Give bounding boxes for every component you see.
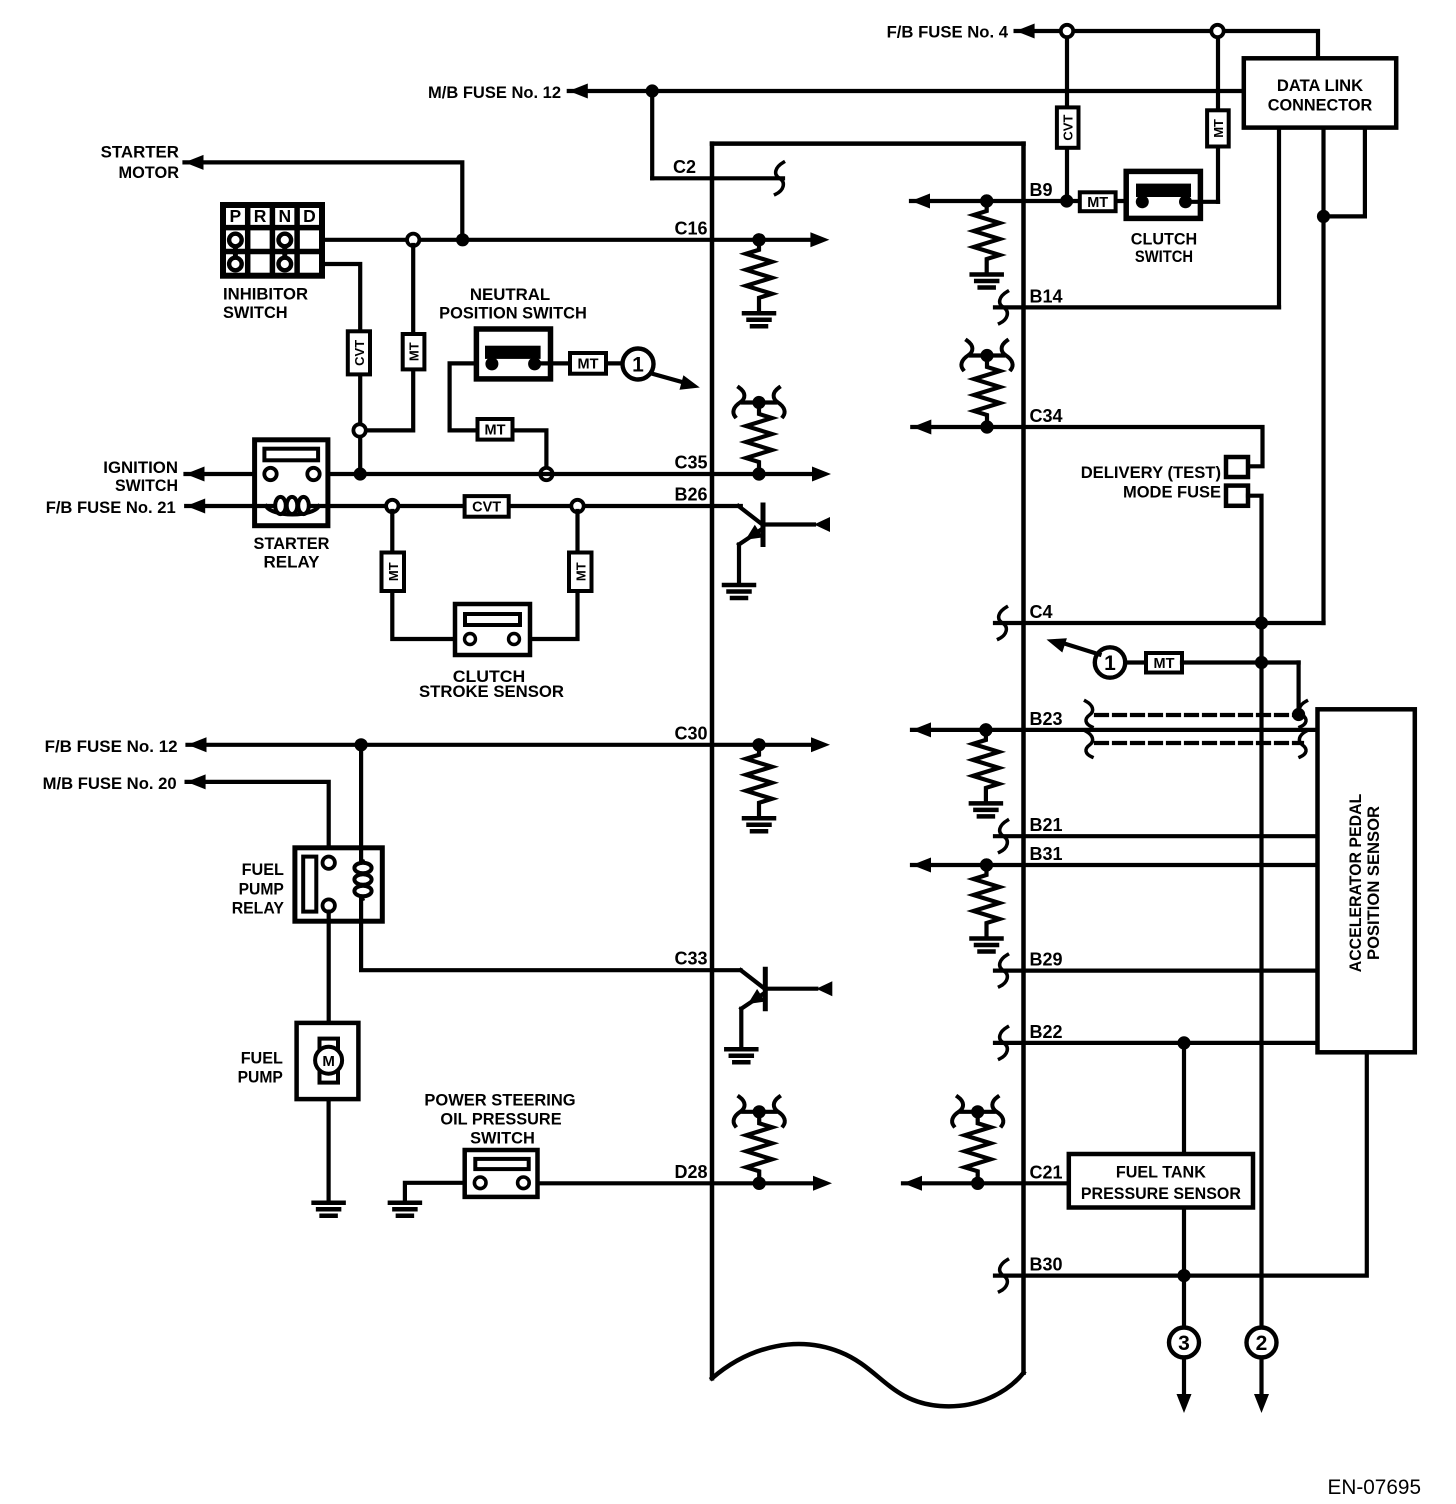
svg-text:B26: B26 [674, 485, 707, 505]
svg-text:STARTER: STARTER [254, 534, 330, 553]
svg-text:CLUTCH: CLUTCH [1131, 230, 1197, 249]
svg-text:PUMP: PUMP [238, 1068, 283, 1087]
svg-text:SWITCH: SWITCH [115, 476, 178, 495]
svg-text:ACCELERATOR PEDAL: ACCELERATOR PEDAL [1346, 794, 1365, 973]
svg-text:MOTOR: MOTOR [119, 163, 180, 182]
svg-text:FUEL TANK: FUEL TANK [1116, 1163, 1207, 1182]
svg-text:RELAY: RELAY [232, 899, 285, 918]
svg-text:POSITION SENSOR: POSITION SENSOR [1364, 806, 1383, 960]
svg-text:FUEL: FUEL [241, 1049, 283, 1068]
svg-text:PUMP: PUMP [239, 880, 284, 899]
svg-text:B29: B29 [1030, 950, 1063, 970]
svg-text:B22: B22 [1030, 1022, 1063, 1042]
svg-text:M/B FUSE No. 12: M/B FUSE No. 12 [428, 83, 561, 102]
svg-text:PRESSURE SENSOR: PRESSURE SENSOR [1081, 1184, 1241, 1203]
svg-text:MT: MT [485, 423, 506, 439]
svg-text:F/B FUSE No. 4: F/B FUSE No. 4 [887, 23, 1009, 42]
svg-text:SWITCH: SWITCH [223, 303, 288, 322]
svg-text:MT: MT [1211, 119, 1226, 138]
svg-text:2: 2 [1256, 1332, 1268, 1355]
svg-text:M/B FUSE No. 20: M/B FUSE No. 20 [43, 774, 177, 793]
svg-text:C34: C34 [1030, 406, 1063, 426]
svg-text:MT: MT [386, 562, 401, 581]
svg-text:C30: C30 [674, 723, 707, 743]
svg-text:B31: B31 [1030, 844, 1063, 864]
svg-text:CONNECTOR: CONNECTOR [1268, 96, 1373, 115]
svg-text:M: M [322, 1053, 335, 1070]
svg-text:P: P [230, 206, 242, 226]
svg-text:C16: C16 [674, 218, 707, 238]
svg-text:INHIBITOR: INHIBITOR [223, 285, 308, 304]
svg-text:CVT: CVT [1061, 115, 1076, 141]
svg-text:MODE FUSE: MODE FUSE [1123, 483, 1221, 502]
svg-text:F/B FUSE No. 21: F/B FUSE No. 21 [46, 498, 176, 517]
svg-text:MT: MT [1154, 656, 1175, 672]
svg-text:DATA LINK: DATA LINK [1277, 76, 1364, 95]
svg-text:MT: MT [1087, 195, 1108, 211]
svg-text:C4: C4 [1030, 602, 1053, 622]
svg-text:MT: MT [407, 342, 422, 361]
svg-text:C33: C33 [674, 949, 707, 969]
svg-text:EN-07695: EN-07695 [1328, 1476, 1422, 1499]
svg-text:B30: B30 [1030, 1255, 1063, 1275]
svg-text:B14: B14 [1030, 286, 1063, 306]
svg-text:N: N [278, 206, 291, 226]
svg-text:B23: B23 [1030, 709, 1063, 729]
svg-text:MT: MT [578, 357, 599, 373]
svg-text:D: D [303, 206, 316, 226]
svg-text:SWITCH: SWITCH [470, 1129, 535, 1148]
svg-text:NEUTRAL: NEUTRAL [470, 285, 550, 304]
svg-text:IGNITION: IGNITION [103, 458, 178, 477]
svg-text:POSITION SWITCH: POSITION SWITCH [439, 304, 587, 323]
svg-text:POWER STEERING: POWER STEERING [424, 1091, 575, 1110]
svg-text:1: 1 [1104, 652, 1116, 675]
svg-text:SWITCH: SWITCH [1135, 247, 1193, 266]
svg-text:F/B FUSE No. 12: F/B FUSE No. 12 [45, 737, 178, 756]
svg-text:FUEL: FUEL [242, 860, 284, 879]
svg-text:CVT: CVT [472, 500, 501, 516]
svg-text:R: R [254, 206, 267, 226]
svg-text:C21: C21 [1030, 1162, 1063, 1182]
svg-text:1: 1 [632, 354, 644, 377]
svg-text:C35: C35 [674, 453, 707, 473]
svg-text:B21: B21 [1030, 815, 1063, 835]
svg-text:CVT: CVT [352, 340, 367, 366]
svg-text:C2: C2 [673, 157, 696, 177]
svg-text:OIL PRESSURE: OIL PRESSURE [440, 1110, 561, 1129]
svg-text:D28: D28 [674, 1162, 707, 1182]
svg-text:MT: MT [573, 562, 588, 581]
svg-text:3: 3 [1178, 1332, 1190, 1355]
svg-text:DELIVERY (TEST): DELIVERY (TEST) [1081, 463, 1221, 482]
svg-text:B9: B9 [1030, 180, 1053, 200]
svg-text:STROKE SENSOR: STROKE SENSOR [419, 682, 564, 701]
svg-text:STARTER: STARTER [101, 143, 179, 162]
svg-text:RELAY: RELAY [264, 553, 321, 572]
